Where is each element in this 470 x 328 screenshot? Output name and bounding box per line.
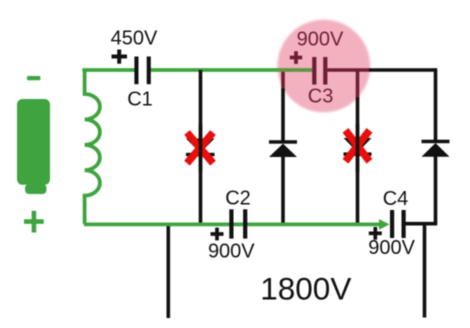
capacitor C2 (229, 209, 247, 238)
wire branch 1 vertical (crossed diode) (199, 70, 203, 225)
wire top maroon (C3 right plate to circle edge) (327, 68, 370, 72)
svg-text:C4: C4 (383, 188, 409, 210)
svg-text:C2: C2 (225, 188, 251, 210)
capacitor C1 (134, 57, 150, 85)
crossed diode behind X2 (344, 138, 372, 156)
diode D2 (422, 140, 450, 157)
wire top green mid (C1 to highlight circle edge) (151, 68, 278, 72)
wire branch 3 vertical inside circle (maroon) (356, 70, 360, 99)
capacitor C3 (maroon under highlight) (312, 57, 327, 85)
highlight circle around C3 (277, 20, 370, 113)
battery minus label (27, 76, 40, 80)
wire right edge vertical below D2 (434, 156, 438, 224)
wire output drop left (167, 224, 171, 318)
wire horizontal C4 right to corner (405, 222, 437, 226)
plus label at C2 (211, 228, 224, 241)
wire branch 2 top inside circle (maroon) (281, 70, 285, 90)
crossed diode behind X1 (186, 139, 215, 157)
svg-text:C1: C1 (127, 89, 153, 111)
wire top green left (coil to C1) (82, 68, 134, 72)
wire bottom green arrow (84, 219, 390, 230)
plus label at C1 (112, 50, 128, 64)
battery BT1 (17, 99, 50, 194)
svg-text:450V: 450V (111, 28, 158, 50)
wire branch 1 over X (199, 124, 203, 172)
wire top green inside circle (to C3 left plate) (278, 68, 313, 72)
diode D1 (269, 140, 297, 157)
wire output drop right (423, 224, 427, 318)
red X mark 1 (187, 133, 213, 164)
svg-text:900V: 900V (297, 28, 344, 50)
wire branch 2 vertical (diode D1) (281, 89, 285, 141)
capacitor C4 (390, 210, 406, 238)
plus label at C3 (290, 51, 302, 64)
wire branch 3 over X (356, 124, 360, 172)
red X mark 2 (346, 130, 370, 161)
svg-text:1800V: 1800V (260, 271, 351, 307)
wire top black (circle edge to top-right corner) (369, 68, 436, 72)
svg-text:C3: C3 (308, 86, 334, 108)
plus label at C4 (369, 227, 382, 240)
inductor L1 (85, 70, 100, 224)
svg-text:900V: 900V (208, 241, 255, 263)
battery plus label (24, 211, 44, 233)
wire right edge vertical (to diode D2) (434, 68, 438, 140)
wire branch 3 vertical (crossed diode) (356, 98, 360, 226)
svg-text:900V: 900V (368, 237, 415, 259)
